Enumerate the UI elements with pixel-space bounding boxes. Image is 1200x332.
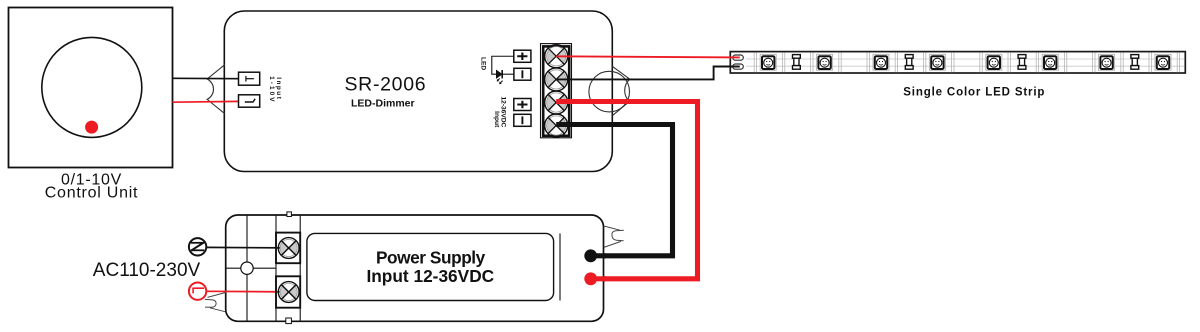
svg-text:Input: Input [493, 111, 500, 128]
svg-text:SR-2006: SR-2006 [344, 74, 426, 96]
svg-text:LED-Dimmer: LED-Dimmer [351, 97, 415, 109]
svg-text:1-10V: 1-10V [268, 76, 275, 104]
svg-text:12-36VDC: 12-36VDC [500, 97, 507, 128]
svg-text:Power Supply: Power Supply [376, 247, 486, 267]
svg-text:Single Color LED Strip: Single Color LED Strip [903, 86, 1045, 98]
svg-text:LED: LED [480, 57, 487, 70]
svg-text:Input: Input [275, 77, 282, 100]
svg-text:AC110-230V: AC110-230V [93, 260, 201, 281]
svg-text:Control Unit: Control Unit [45, 184, 138, 201]
svg-text:Input 12-36VDC: Input 12-36VDC [366, 266, 494, 286]
